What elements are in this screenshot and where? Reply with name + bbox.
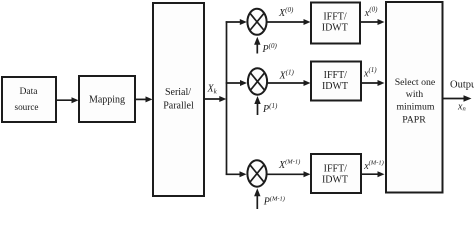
wire: branch to multiplier M0 [226, 19, 247, 25]
svg-text:Serial/: Serial/ [165, 87, 191, 98]
svg-text:IFFT/: IFFT/ [323, 12, 347, 23]
block: IFFT/IDWT U1 [311, 62, 361, 101]
wire: branch to multiplier M1 [226, 80, 247, 86]
wire: selector output [443, 95, 472, 101]
svg-text:IFFT/: IFFT/ [324, 164, 348, 175]
svg-text:minimum: minimum [396, 102, 434, 113]
block: PAPR selector [386, 2, 443, 193]
wire: branch bus vertical [226, 21, 228, 175]
block: Serial/Parallel converter [153, 3, 204, 196]
svg-text:with: with [406, 89, 424, 100]
svg-text:Select one: Select one [395, 77, 436, 88]
svg-text:Data: Data [19, 86, 38, 97]
svg-text:source: source [15, 102, 39, 112]
wire: Data source to Mapping [56, 97, 79, 103]
svg-text:IFFT/: IFFT/ [324, 70, 348, 81]
block: IFFT/IDWT U2 [311, 154, 361, 193]
block: IFFT/IDWT U0 [311, 3, 360, 44]
wire: Mapping to Serial/Parallel [135, 96, 153, 102]
svg-text:Mapping: Mapping [89, 95, 125, 106]
multiplier M2 [247, 160, 266, 186]
svg-text:PAPR: PAPR [402, 114, 426, 125]
wire: M0 to IFFT U0, label X(0) [267, 19, 311, 25]
wire: phase input P(M-1) [254, 188, 260, 209]
svg-text:IDWT: IDWT [322, 175, 348, 186]
wire: Serial/Parallel output Xk to branch node [204, 96, 226, 102]
block: Mapping [79, 76, 135, 122]
svg-text:IDWT: IDWT [322, 23, 348, 34]
wire: M1 to IFFT U1, label X(1) [267, 80, 311, 86]
svg-text:Parallel: Parallel [163, 101, 194, 112]
block: Data source [2, 77, 56, 122]
wire: phase input P(1) [254, 96, 260, 115]
multiplier M0 [247, 9, 266, 35]
wire: U2 to selector, label x(M-1) [361, 171, 385, 177]
wire: branch to multiplier M2 [226, 171, 247, 177]
multiplier M1 [248, 68, 267, 94]
wire: M2 to IFFT U2, label X(M-1) [267, 171, 311, 177]
wire: phase input P(0) [254, 37, 260, 54]
svg-text:Output: Output [450, 80, 474, 91]
svg-text:IDWT: IDWT [322, 81, 348, 92]
wire: U1 to selector, label x(1) [361, 80, 385, 86]
wire: U0 to selector, label x(0) [360, 19, 385, 25]
